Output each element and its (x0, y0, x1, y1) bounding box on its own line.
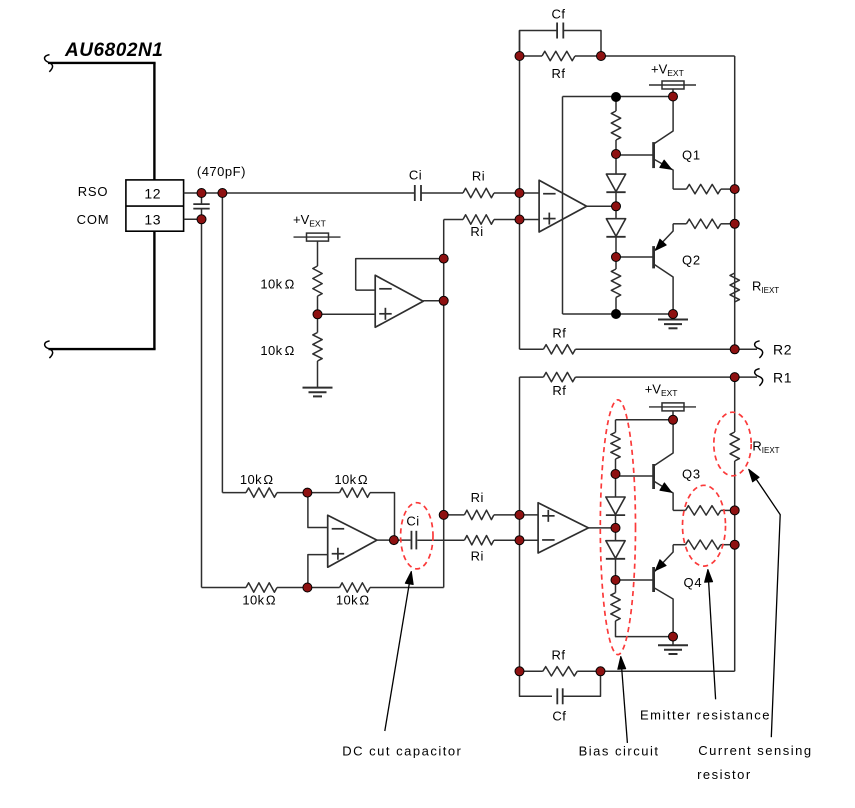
svg-text:Ci: Ci (406, 514, 419, 529)
svg-text:10k: 10k (336, 593, 358, 608)
svg-text:10k: 10k (260, 343, 282, 358)
svg-text:Ω: Ω (358, 472, 368, 487)
svg-text:10k: 10k (334, 472, 356, 487)
svg-text:Ω: Ω (266, 593, 276, 608)
svg-text:Rf: Rf (552, 648, 566, 663)
svg-text:resistor: resistor (697, 767, 752, 782)
svg-text:10k: 10k (260, 277, 282, 292)
svg-text:Ω: Ω (285, 277, 295, 292)
svg-text:Ω: Ω (285, 343, 295, 358)
svg-text:DC cut capacitor: DC cut capacitor (342, 744, 462, 759)
svg-text:12: 12 (144, 185, 161, 201)
svg-text:Ri: Ri (472, 169, 485, 184)
svg-text:Q2: Q2 (682, 253, 701, 268)
svg-text:AU6802N1: AU6802N1 (64, 40, 163, 61)
svg-text:Bias circuit: Bias circuit (579, 744, 660, 759)
svg-text:Ri: Ri (471, 549, 484, 564)
svg-text:RSO: RSO (78, 184, 109, 199)
svg-text:Emitter resistance: Emitter resistance (640, 708, 771, 723)
svg-text:Q1: Q1 (682, 148, 701, 163)
svg-text:Cf: Cf (552, 7, 566, 22)
svg-text:Q3: Q3 (682, 467, 701, 482)
svg-text:10k: 10k (240, 472, 262, 487)
svg-text:10k: 10k (242, 593, 264, 608)
svg-text:Ω: Ω (263, 472, 273, 487)
svg-text:COM: COM (77, 212, 110, 227)
svg-text:Ω: Ω (359, 593, 369, 608)
svg-text:R1: R1 (773, 369, 792, 385)
svg-text:13: 13 (144, 211, 161, 227)
svg-text:Rf: Rf (552, 326, 566, 341)
svg-text:R2: R2 (773, 342, 792, 358)
svg-text:(470pF): (470pF) (197, 164, 246, 179)
svg-text:Cf: Cf (552, 709, 566, 724)
svg-text:Ri: Ri (471, 490, 484, 505)
svg-text:Current sensing: Current sensing (698, 743, 812, 758)
svg-text:Rf: Rf (552, 383, 566, 398)
svg-text:Q4: Q4 (684, 575, 703, 590)
svg-text:Ci: Ci (409, 168, 422, 183)
svg-text:Rf: Rf (552, 66, 566, 81)
svg-text:Ri: Ri (470, 224, 483, 239)
